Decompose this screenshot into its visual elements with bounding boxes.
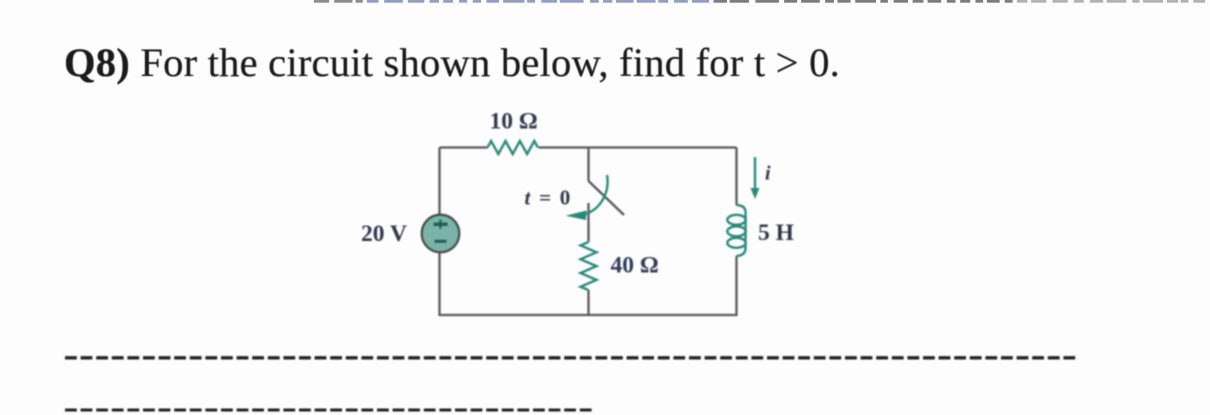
svg-text:5 H: 5 H [758,220,794,246]
svg-text:i: i [765,163,771,185]
svg-text:t = 0: t = 0 [525,186,571,210]
svg-text:40 Ω: 40 Ω [611,253,659,279]
svg-text:20 V: 20 V [361,221,407,247]
svg-text:10 Ω: 10 Ω [490,109,538,135]
